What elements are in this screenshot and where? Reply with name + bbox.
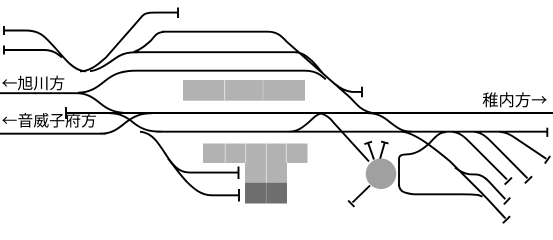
- shed siding branch: [455, 168, 505, 200]
- siding stub 2 top-left: track: [4, 50, 62, 58]
- track 5 (y52): [134, 52, 323, 73]
- platform 1 (island platform): [183, 80, 305, 101]
- siding stub 1 top-left: buffer tick: [3, 26, 5, 35]
- turntable stub up 2: [380, 143, 385, 159]
- track 4 (y70.7) with west connection to main: [78, 71, 326, 93]
- turntable stub up 1 tick: [364, 142, 372, 145]
- turntable lead from main: [319, 113, 369, 161]
- platform2 stub 2: [168, 159, 239, 196]
- platform 2 (side platform, T-bar): [203, 144, 308, 164]
- headshunt buffer tick near text: [65, 107, 67, 119]
- turntable stub down-left: [353, 186, 371, 203]
- station building (dark): [245, 183, 287, 204]
- siding stub 1 top-left: track: [4, 31, 86, 72]
- platform2 stub 1: [140, 132, 239, 173]
- main platform track (y113): [66, 112, 553, 114]
- long shed siding buffer tick: [503, 216, 510, 223]
- turntable loop lower: [399, 184, 483, 197]
- track 6 (y31.5): [162, 31, 268, 33]
- main line from Otoineppu (y133.5): [0, 133, 106, 135]
- engine siding buffer tick: [361, 87, 363, 98]
- crossover descending west (y113 to y131.7): [110, 113, 162, 132]
- headshunt stub buffer tick: [177, 8, 179, 19]
- loop track east buffer tick: [546, 128, 548, 137]
- fan siding 2 buffer tick: [525, 176, 532, 183]
- long shed siding diagonal: [402, 132, 506, 219]
- branch up to track 6 (y31.5): [133, 32, 164, 53]
- fan siding 1: [452, 132, 507, 180]
- loop track (y131.7): [156, 131, 547, 133]
- engine siding stub (y92): [335, 84, 362, 92]
- fan siding 2: [474, 132, 528, 179]
- turntable stub down-left tick: [348, 201, 354, 207]
- yard exit diagonal (east): [268, 32, 372, 113]
- turntable stub up 2 tick: [381, 142, 388, 144]
- fan siding 1 buffer tick: [505, 178, 512, 185]
- platform2 stub 2 buffer tick: [238, 189, 240, 202]
- ladder branch to track y52: [90, 52, 139, 71]
- turntable stub up 1: [368, 144, 374, 160]
- turntable: [366, 159, 397, 190]
- crossover ascending west (y133.5 to y113): [100, 113, 152, 134]
- platform2 stub 1 buffer tick: [238, 167, 240, 180]
- siding stub 2 top-left: buffer tick: [3, 46, 5, 55]
- platform 2 stem: [245, 163, 287, 183]
- shed siding branch buffer tick: [504, 198, 510, 205]
- fan siding 3 buffer tick: [545, 156, 550, 164]
- crossover descending east (y113 to y131.7): [368, 113, 412, 132]
- ladder diagonal to headshunt stub: [80, 13, 178, 72]
- crossover ascending east (y131.7 to y113): [289, 113, 324, 132]
- fan siding 3: [499, 132, 546, 159]
- label otoineppu ends x=96.9: [2, 113, 96, 128]
- turntable loop upper (to main line east): [399, 132, 446, 186]
- label wakkanai ends x=547.4: [483, 92, 547, 107]
- main line from Asahikawa (y93): [0, 93, 124, 113]
- label asahikawa ends x=65.1: [2, 76, 64, 91]
